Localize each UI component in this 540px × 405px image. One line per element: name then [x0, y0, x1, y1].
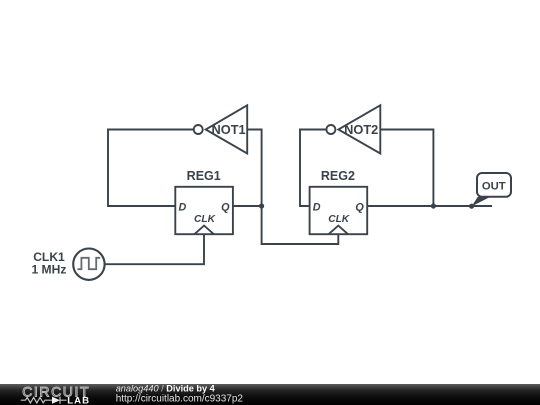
D flip-flop REG2 [310, 169, 368, 234]
D flip-flop REG1 [175, 169, 233, 234]
CircuitLab logo [21, 384, 90, 405]
inverter NOT1 [194, 105, 248, 153]
svg-text:CLK: CLK [328, 214, 350, 225]
svg-text:NOT2: NOT2 [344, 122, 378, 137]
svg-text:CLK: CLK [194, 214, 216, 225]
wire NOT2 output to REG2 D (left feedback) [300, 130, 326, 207]
clock source CLK1 [31, 249, 104, 280]
svg-text:OUT: OUT [482, 180, 506, 192]
wire REG1 Q to REG2 CLK [262, 206, 339, 244]
svg-text:REG2: REG2 [321, 169, 355, 183]
wire NOT1 output to REG1 D (left feedback) [108, 130, 194, 207]
wire REG2 Q to NOT2 input (right feedback riser) [367, 130, 433, 207]
inverter NOT2 [326, 105, 380, 153]
wire CLK1 to REG1 CLK [105, 234, 204, 264]
output probe OUT [469, 173, 511, 209]
footer title text [116, 383, 244, 404]
node probe connection [469, 204, 474, 209]
svg-text:Q: Q [355, 201, 364, 213]
footer bar [0, 384, 540, 405]
svg-text:1 MHz: 1 MHz [31, 263, 66, 277]
junction node REG2.Q [431, 203, 436, 208]
svg-text:http://circuitlab.com/c9337p2: http://circuitlab.com/c9337p2 [116, 394, 244, 405]
wire REG1 Q to NOT1 input (right feedback riser) [233, 130, 262, 207]
svg-text:D: D [313, 201, 321, 213]
svg-text:LAB: LAB [67, 396, 90, 405]
svg-text:REG1: REG1 [187, 169, 221, 183]
svg-text:D: D [179, 201, 187, 213]
wire REG2 Q to OUT probe [433, 205, 492, 207]
svg-text:NOT1: NOT1 [212, 122, 246, 137]
svg-text:analog440 / Divide by 4: analog440 / Divide by 4 [116, 383, 216, 393]
svg-text:Q: Q [221, 201, 230, 213]
junction node REG1.Q [259, 203, 264, 208]
